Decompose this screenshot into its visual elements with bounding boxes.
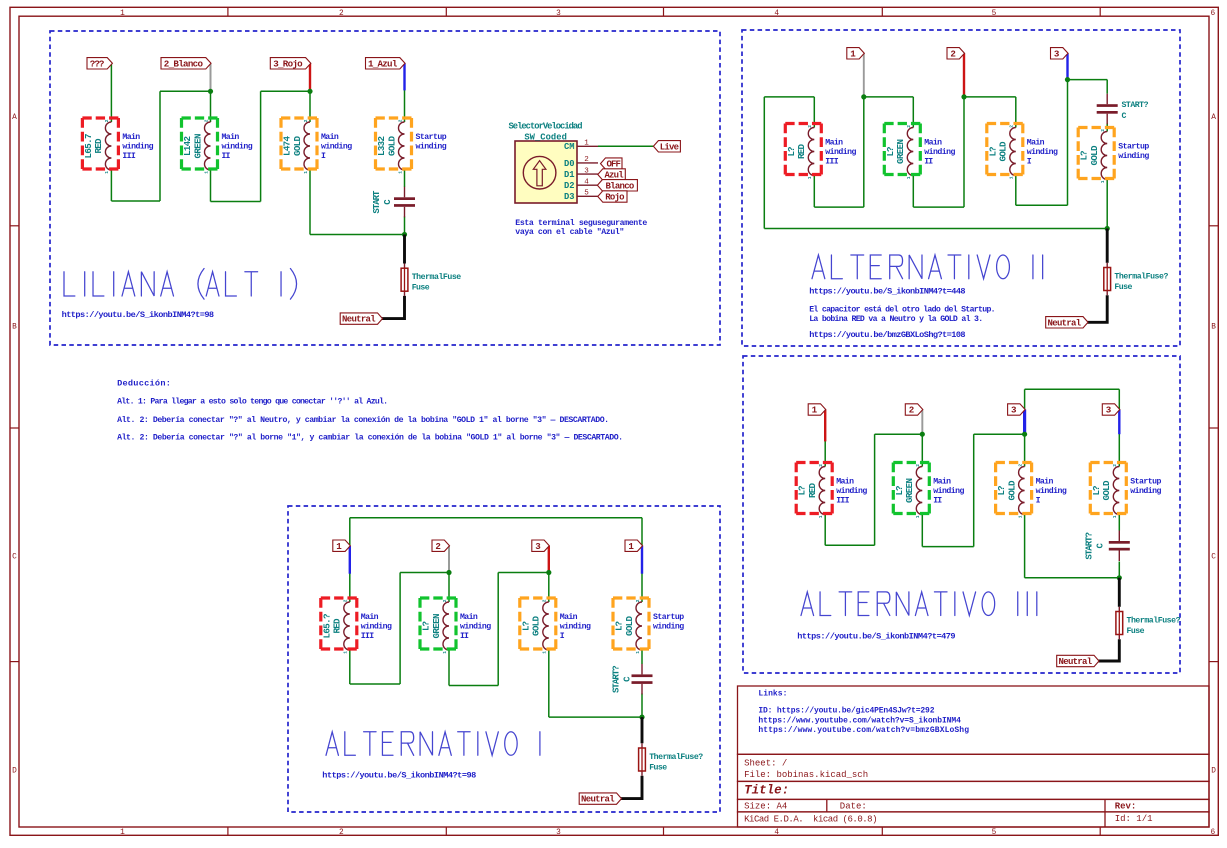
- wire label2 gray segment: [448, 546, 450, 573]
- switch pin 3 D1: [577, 173, 598, 175]
- svg-text:ThermalFuse?: ThermalFuse?: [649, 752, 703, 762]
- svg-text:winding: winding: [653, 622, 684, 632]
- wire RED bottom down: [813, 176, 815, 208]
- svg-text:winding: winding: [1130, 486, 1161, 496]
- inductor L? GOLD Main winding I: [1010, 128, 1016, 176]
- svg-text:Startup: Startup: [1130, 478, 1161, 487]
- svg-text:winding: winding: [560, 622, 591, 632]
- svg-text:1: 1: [915, 515, 921, 518]
- global label Neutral: [1057, 655, 1099, 666]
- svg-text:RED: RED: [332, 618, 343, 633]
- title block divider Rev: [1104, 799, 1106, 827]
- svg-text:II: II: [460, 632, 469, 641]
- svg-text:https://youtu.be/S_ikonbINM4?t: https://youtu.be/S_ikonbINM4?t=479: [797, 632, 955, 642]
- wire L1 bottom down: [349, 650, 351, 684]
- svg-text:ThermalFuse?: ThermalFuse?: [1114, 271, 1168, 281]
- svg-text:1: 1: [442, 651, 448, 654]
- title LILIANA (ALT I): [64, 269, 297, 300]
- svg-text:GREEN: GREEN: [895, 139, 906, 164]
- svg-text:2: 2: [339, 10, 344, 18]
- rotary switch SW_Coded SelectorVelocidad: [515, 141, 577, 203]
- svg-text:Esta terminal seguseguramente: Esta terminal seguseguramente: [515, 218, 647, 228]
- wire 2_Blanco to L2 top: [210, 63, 212, 122]
- global label Neutral: [340, 313, 382, 324]
- junction: [639, 715, 644, 720]
- svg-text:START: START: [372, 190, 382, 214]
- svg-text:2: 2: [635, 599, 641, 602]
- svg-text:Main: Main: [1027, 138, 1045, 148]
- hierarchical label 3: [532, 540, 550, 551]
- svg-text:3: 3: [1106, 405, 1112, 416]
- svg-text:1: 1: [818, 515, 824, 518]
- svg-text:A: A: [12, 114, 17, 122]
- svg-text:winding: winding: [460, 622, 491, 632]
- svg-text:1: 1: [1017, 515, 1023, 518]
- wire node to 3_Rojo column: [261, 90, 310, 92]
- column ticks: [227, 7, 229, 16]
- hierarchical label 2: [432, 540, 450, 551]
- svg-text:Main: Main: [560, 612, 578, 622]
- wire label1 to L1: [824, 410, 826, 467]
- wire up to node 3_Rojo: [260, 91, 262, 201]
- svg-text:winding: winding: [924, 147, 955, 157]
- fuse ThermalFuse?: [1118, 607, 1120, 612]
- svg-text:El capacitor está del otro lad: El capacitor está del otro lado del Star…: [809, 305, 995, 315]
- junction: [1065, 77, 1070, 82]
- svg-text:Neutral: Neutral: [581, 795, 615, 805]
- svg-text:5: 5: [992, 829, 997, 837]
- svg-text:1: 1: [635, 651, 641, 654]
- svg-text:https://www.youtube.com/watch?: https://www.youtube.com/watch?v=bmzGBXLo…: [758, 726, 969, 735]
- svg-text:GREEN: GREEN: [192, 134, 203, 159]
- svg-text:La bobina RED va a Neutro y la: La bobina RED va a Neutro y la GOLD al 3…: [809, 314, 983, 324]
- junction: [1105, 226, 1110, 231]
- inductor L? GOLD Main winding I: [1019, 467, 1025, 515]
- svg-text:1: 1: [104, 171, 110, 174]
- wire up to node 1: [863, 97, 865, 207]
- svg-text:I: I: [560, 632, 565, 641]
- svg-text:3: 3: [1011, 405, 1017, 416]
- junction: [402, 232, 407, 237]
- svg-text:II: II: [933, 496, 942, 505]
- svg-text:ThermalFuse?: ThermalFuse?: [1127, 615, 1181, 625]
- svg-text:Main: Main: [1036, 477, 1054, 487]
- svg-text:5: 5: [584, 190, 589, 198]
- svg-text:D1: D1: [564, 170, 575, 180]
- wire label2 to L2: [448, 546, 450, 602]
- svg-text:RED: RED: [807, 483, 818, 498]
- capacitor C START?: [1109, 541, 1130, 544]
- sheet outline ALTERNATIVO II: [742, 30, 1180, 346]
- svg-text:Startup: Startup: [1118, 143, 1149, 152]
- svg-text:2: 2: [303, 119, 309, 122]
- wire L2 bottom right: [449, 685, 498, 687]
- sheet outline LILIANA (ALT I): [50, 31, 720, 345]
- wire junction to fuse (black): [1118, 578, 1121, 607]
- wire up to node 2: [399, 573, 401, 685]
- svg-text:I: I: [1027, 157, 1032, 166]
- svg-text:3_Rojo: 3_Rojo: [273, 59, 303, 70]
- wire top rail: [1025, 388, 1120, 390]
- svg-text:C: C: [1096, 543, 1106, 549]
- svg-text:D2: D2: [564, 181, 575, 191]
- hierarchical label 2: [905, 404, 923, 415]
- svg-text:B: B: [12, 324, 17, 332]
- junction: [546, 570, 551, 575]
- svg-text:https://youtu.be/S_ikonbINM4?t: https://youtu.be/S_ikonbINM4?t=448: [809, 287, 965, 297]
- wire rail to label3: [1024, 389, 1026, 409]
- global label OFF: [601, 158, 623, 169]
- svg-text:winding: winding: [825, 147, 856, 157]
- wire label3 blue segment: [1023, 410, 1026, 435]
- wire junction to fuse (black): [641, 717, 644, 743]
- wire L3 bottom down: [1024, 515, 1026, 578]
- wire L1 bottom right: [350, 683, 400, 685]
- wire up to node 3: [973, 434, 975, 546]
- svg-text:winding: winding: [1027, 147, 1058, 157]
- svg-text:Main: Main: [122, 132, 140, 142]
- svg-text:Date:: Date:: [840, 802, 867, 812]
- global label Blanco: [597, 180, 637, 191]
- hierarchical label 2: [947, 48, 965, 59]
- wire L2 bottom down: [448, 650, 450, 686]
- svg-text:START?: START?: [612, 665, 622, 693]
- svg-text:GREEN: GREEN: [431, 614, 442, 639]
- svg-text:Title:: Title:: [744, 784, 789, 798]
- wire L1 bottom down: [110, 170, 112, 201]
- svg-text:winding: winding: [836, 486, 867, 496]
- svg-text:3: 3: [584, 167, 589, 175]
- svg-text:Fuse: Fuse: [649, 763, 667, 772]
- wire label2 to L2: [921, 410, 923, 467]
- svg-text:1: 1: [120, 10, 125, 18]
- junction: [861, 94, 866, 99]
- wire GREEN bottom down: [912, 176, 914, 208]
- wire node2 to GOLD: [964, 96, 1016, 98]
- inductor L? GOLD Startup winding: [636, 602, 642, 650]
- svg-text:KiCad E.D.A. kicad (6.0.8): KiCad E.D.A. kicad (6.0.8): [744, 815, 877, 825]
- switch pin 4 D2: [577, 184, 598, 186]
- inductor L? GREEN Main winding II: [443, 602, 449, 650]
- svg-text:A: A: [1211, 114, 1216, 122]
- sheet outline ALTERNATIVO III: [743, 356, 1180, 673]
- inductor L? GOLD Main winding I: [543, 602, 549, 650]
- global label Neutral: [579, 793, 621, 804]
- svg-text:1: 1: [303, 171, 309, 174]
- svg-text:2: 2: [1112, 464, 1118, 467]
- wire top rail: [350, 517, 642, 519]
- svg-text:Rojo: Rojo: [605, 193, 624, 203]
- wire up to node 2: [963, 97, 965, 207]
- svg-text:2: 2: [915, 464, 921, 467]
- inductor L? GOLD Startup winding: [1113, 467, 1119, 515]
- junction: [961, 94, 966, 99]
- junction: [307, 89, 312, 94]
- svg-text:RED: RED: [796, 144, 807, 159]
- svg-text:Main: Main: [836, 477, 854, 487]
- svg-text:Sheet: /: Sheet: /: [744, 759, 787, 769]
- title block frame: [738, 686, 1210, 754]
- inductor L? GREEN Main winding II: [907, 128, 913, 176]
- wire CM to Live: [598, 145, 653, 147]
- svg-text:Id: 1/1: Id: 1/1: [1115, 814, 1153, 824]
- svg-text:C: C: [1122, 112, 1127, 121]
- svg-text:III: III: [361, 632, 374, 641]
- svg-text:https://youtu.be/bmzGBXLoShg?t: https://youtu.be/bmzGBXLoShg?t=108: [809, 330, 965, 340]
- svg-text:1: 1: [628, 541, 634, 552]
- inductor L? GREEN Main winding II: [916, 467, 922, 515]
- svg-text:2: 2: [397, 119, 403, 122]
- svg-text:GOLD: GOLD: [1006, 480, 1017, 500]
- wire down to C: [1106, 80, 1108, 94]
- inductor L? GOLD Startup winding: [1101, 132, 1107, 180]
- inductor L65.7 RED Main winding III: [105, 122, 111, 170]
- wire label3 to L3: [548, 546, 550, 602]
- svg-text:winding: winding: [416, 142, 447, 152]
- capacitor C START?: [632, 674, 653, 677]
- inductor L474 GOLD Main winding I: [304, 122, 310, 170]
- wire L1 bottom down: [824, 515, 826, 546]
- wire node2 to L2 col: [875, 433, 923, 435]
- svg-text:Main: Main: [825, 138, 843, 148]
- svg-text:https://youtu.be/S_ikonbINM4?t: https://youtu.be/S_ikonbINM4?t=98: [322, 770, 476, 780]
- hierarchical label 1: [847, 48, 865, 59]
- wire rail to label1: [349, 518, 351, 546]
- switch pin 1 CM: [577, 145, 598, 147]
- svg-text:winding: winding: [1036, 486, 1067, 496]
- wire node1 to GREEN: [864, 96, 914, 98]
- sheet outline ALTERNATIVO I: [288, 506, 720, 812]
- svg-text:GOLD: GOLD: [386, 136, 397, 156]
- hierarchical label 3_Rojo: [270, 58, 311, 69]
- junction: [446, 570, 451, 575]
- wire 3_Rojo to L3 top: [309, 63, 311, 122]
- wire bottom rail: [764, 228, 1107, 230]
- wire to RED top: [813, 97, 815, 128]
- hierarchical label 1: [808, 404, 826, 415]
- svg-text:1: 1: [203, 171, 209, 174]
- hierarchical label 1_Azul: [366, 58, 406, 69]
- svg-text:2: 2: [203, 119, 209, 122]
- svg-text:III: III: [825, 157, 838, 166]
- wire Startup bottom: [1106, 180, 1108, 229]
- svg-text:Blanco: Blanco: [606, 181, 635, 191]
- svg-text:Neutral: Neutral: [1048, 318, 1082, 328]
- hierarchical label 1: [333, 540, 351, 551]
- svg-text:C: C: [623, 676, 633, 682]
- title ALTERNATIVO II: [812, 255, 1043, 279]
- wire L3 bottom down: [548, 650, 550, 717]
- switch pin 2 D0: [577, 162, 598, 164]
- wire 2_Blanco gray segment: [210, 63, 212, 91]
- svg-text:https://youtu.be/S_ikonbINM4?t: https://youtu.be/S_ikonbINM4?t=98: [62, 310, 215, 320]
- title block divider Date: [826, 799, 828, 812]
- wire fuse to Neutral (black): [620, 776, 642, 799]
- hierarchical label 1 (startup): [625, 540, 643, 551]
- svg-text:C: C: [1211, 554, 1216, 562]
- svg-text:2: 2: [1017, 464, 1023, 467]
- svg-text:Deducción:: Deducción:: [117, 379, 171, 389]
- wire junction to fuse (black): [1106, 229, 1109, 263]
- svg-text:III: III: [122, 152, 135, 161]
- svg-text:winding: winding: [1118, 151, 1149, 161]
- svg-text:winding: winding: [122, 142, 153, 152]
- svg-text:1: 1: [584, 140, 589, 148]
- svg-text:2: 2: [906, 125, 912, 128]
- svg-text:ID: https://youtu.be/gic4PEn4S: ID: https://youtu.be/gic4PEn4SJw?t=292: [758, 706, 934, 715]
- wire L4 bottom to C: [1118, 515, 1120, 531]
- svg-text:GREEN: GREEN: [904, 478, 915, 503]
- svg-text:II: II: [222, 152, 231, 161]
- junction: [920, 432, 925, 437]
- svg-text:SW_Coded: SW_Coded: [524, 133, 567, 143]
- svg-text:Neutral: Neutral: [342, 315, 376, 325]
- wire ??? to L1 top: [110, 63, 112, 122]
- wire label1 blue segment: [349, 546, 351, 574]
- global label Azul: [598, 169, 626, 180]
- svg-text:II: II: [924, 157, 933, 166]
- capacitor C START?: [1097, 104, 1118, 107]
- svg-text:Fuse: Fuse: [1127, 627, 1145, 636]
- wire L1 bottom right: [111, 200, 160, 202]
- svg-text:Alt. 2: Debería conectar "?" a: Alt. 2: Debería conectar "?" al borne "1…: [117, 433, 623, 443]
- wire fuse to Neutral (black): [1087, 295, 1107, 322]
- wire node3 right: [1068, 79, 1108, 81]
- global label Neutral: [1046, 317, 1088, 328]
- switch pin 5 D3: [577, 195, 598, 197]
- junction: [1022, 432, 1027, 437]
- wire label4 blue segment: [1118, 410, 1120, 435]
- title ALTERNATIVO I: [326, 732, 540, 756]
- global label Live: [653, 141, 680, 152]
- wire fuse to Neutral label (black): [381, 296, 405, 319]
- inductor L332 GOLD Startup winding: [399, 122, 405, 170]
- svg-text:GOLD: GOLD: [998, 141, 1009, 161]
- junction: [208, 89, 213, 94]
- wire GOLD bottom down: [1015, 176, 1017, 206]
- wire label4 to L4: [641, 546, 643, 602]
- inductor L? RED Main winding III: [808, 128, 814, 176]
- svg-text:1: 1: [1009, 176, 1015, 179]
- svg-text:D3: D3: [564, 192, 575, 202]
- svg-text:Alt. 1: Para llegar a esto sol: Alt. 1: Para llegar a esto solo tengo qu…: [117, 397, 388, 407]
- wire node to 2_Blanco column: [160, 90, 211, 92]
- svg-text:C: C: [12, 554, 17, 562]
- wire up to node 2_Blanco: [159, 91, 161, 201]
- wire junction to fuse (black): [403, 235, 406, 264]
- svg-text:2: 2: [584, 156, 589, 164]
- wire fuse to Neutral (black): [1098, 639, 1119, 661]
- inductor L? RED Main winding III: [819, 467, 825, 515]
- svg-text:1: 1: [906, 176, 912, 179]
- wire L3 to junction: [549, 716, 642, 718]
- hierarchical label 3: [1051, 48, 1069, 59]
- fuse ThermalFuse?: [1106, 263, 1108, 268]
- svg-text:D: D: [1211, 768, 1216, 776]
- wire up to node 3: [1067, 80, 1069, 206]
- svg-text:Links:: Links:: [758, 690, 787, 699]
- svg-text:1: 1: [1100, 180, 1106, 183]
- wire 1_Azul to L4 top: [404, 63, 406, 122]
- wire label2 red segment: [963, 53, 965, 97]
- svg-text:Main: Main: [222, 132, 240, 142]
- wire L2 bottom right: [922, 546, 973, 548]
- svg-text:Main: Main: [361, 612, 379, 622]
- svg-text:2: 2: [343, 599, 349, 602]
- svg-text:D0: D0: [564, 159, 575, 169]
- wire left rail: [763, 97, 765, 229]
- svg-text:6: 6: [1210, 829, 1215, 837]
- wire up to node 2: [874, 434, 876, 545]
- wire to GOLD top: [1015, 97, 1017, 128]
- svg-text:Main: Main: [924, 138, 942, 148]
- svg-text:winding: winding: [321, 142, 352, 152]
- svg-text:winding: winding: [933, 486, 964, 496]
- svg-text:3: 3: [556, 829, 561, 837]
- wire RED bottom right: [814, 206, 864, 208]
- svg-text:1: 1: [1112, 515, 1118, 518]
- wire C to Startup top: [1106, 123, 1108, 131]
- wire L3 to C junction: [310, 234, 405, 236]
- wire left rail top: [764, 96, 814, 98]
- svg-text:GOLD: GOLD: [624, 616, 635, 636]
- svg-text:Rev:: Rev:: [1115, 802, 1137, 812]
- svg-text:2: 2: [807, 125, 813, 128]
- wire L1 bottom right: [825, 544, 874, 546]
- fuse ThermalFuse: [404, 264, 406, 269]
- svg-text:1: 1: [336, 541, 342, 552]
- svg-text:RED: RED: [93, 138, 104, 153]
- svg-text:Main: Main: [321, 132, 339, 142]
- svg-text:Fuse: Fuse: [1114, 283, 1132, 292]
- wire L3 to junction: [1025, 577, 1120, 579]
- svg-text:Fuse: Fuse: [412, 284, 430, 293]
- wire rail to label4: [1118, 389, 1120, 409]
- wire label3 to L3: [1024, 410, 1026, 467]
- row ticks: [10, 225, 19, 227]
- wire L2 bottom down: [921, 515, 923, 547]
- wire GOLD bottom right: [1016, 204, 1068, 206]
- svg-text:2: 2: [104, 119, 110, 122]
- wire L2 bottom down: [210, 170, 212, 202]
- svg-text:ThermalFuse: ThermalFuse: [412, 272, 462, 282]
- svg-text:1: 1: [850, 49, 856, 60]
- svg-text:winding: winding: [222, 142, 253, 152]
- hierarchical label 2_Blanco: [161, 58, 211, 69]
- capacitor C START: [394, 197, 415, 200]
- svg-text:2_Blanco: 2_Blanco: [164, 59, 204, 70]
- wire C to junction: [641, 694, 643, 718]
- svg-text:GOLD: GOLD: [292, 136, 303, 156]
- svg-text:III: III: [836, 496, 849, 505]
- wire label1 to L1: [349, 546, 351, 602]
- svg-text:Main: Main: [460, 612, 478, 622]
- junction: [1117, 575, 1122, 580]
- svg-text:CM: CM: [564, 142, 575, 152]
- wire label1 gray segment: [863, 53, 865, 97]
- svg-text:2: 2: [1100, 129, 1106, 132]
- wire L4 bottom to C: [404, 170, 406, 187]
- svg-text:2: 2: [542, 599, 548, 602]
- svg-text:GOLD: GOLD: [531, 616, 542, 636]
- wire label4 to L4: [1118, 410, 1120, 467]
- title ALTERNATIVO III: [801, 592, 1037, 616]
- svg-text:4: 4: [584, 178, 589, 186]
- inductor L65.? RED Main winding III: [344, 602, 350, 650]
- svg-text:SelectorVelocidad: SelectorVelocidad: [509, 121, 583, 131]
- wire label1 red segment: [824, 410, 826, 442]
- wire L4 bottom to C: [641, 650, 643, 664]
